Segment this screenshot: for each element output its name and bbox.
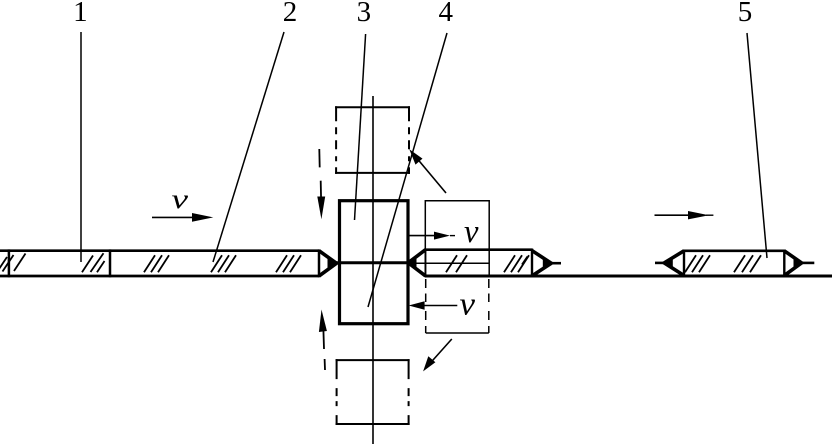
right far bar: right base [783, 250, 785, 277]
svg-text:2: 2 [283, 0, 298, 28]
hatch group 5 [276, 255, 301, 272]
left bar top edge [0, 249, 319, 252]
left bar pointed tip [319, 251, 337, 276]
svg-text:5: 5 [738, 0, 753, 28]
upper dashed box (raised saw position) [335, 106, 410, 174]
right far bar hatch group 1 [685, 255, 710, 272]
leader line 1 [80, 32, 82, 262]
svg-text:1: 1 [73, 0, 88, 28]
bar after saw: left pointed tip [408, 250, 425, 276]
arrow to lower box corner [423, 339, 452, 371]
svg-text:v: v [460, 287, 476, 323]
dashed up arrow (saw rising) [319, 310, 327, 371]
clamp box lower dashed part [426, 279, 489, 333]
hatch group 3 [144, 255, 169, 272]
v arrow left (feed direction) [152, 213, 213, 222]
bar after saw: top edge [425, 248, 532, 251]
saw box (item 3) [340, 201, 409, 324]
bar after saw: right stub [551, 262, 561, 265]
rail line through saw box [335, 261, 410, 264]
bar after saw: right base [531, 249, 533, 277]
right far bar: left stub [655, 262, 664, 265]
label 1 [73, 0, 88, 28]
right far bar: right pointed tip [784, 251, 801, 276]
right far bar hatch group 2 [734, 255, 761, 272]
v arrow lower (into saw box) [409, 301, 458, 309]
hatch group 1 [0, 254, 26, 274]
leader line 3 [355, 34, 366, 220]
label 3 [357, 0, 372, 28]
hatch group 2 [82, 253, 105, 272]
v arrow upper (clamp feed) [409, 232, 455, 240]
svg-text:v: v [464, 214, 479, 250]
leader line 5 [747, 33, 767, 258]
lower dashed box (lowered saw position) [336, 359, 410, 425]
right far bar: right stub [802, 262, 815, 265]
right far bar: top edge [684, 250, 784, 253]
bar after saw: right pointed tip [532, 251, 551, 276]
arrow to upper box corner [409, 149, 446, 193]
bar after saw hatch group B [504, 255, 529, 272]
main rail line right section [425, 275, 832, 278]
label 2 [283, 0, 298, 28]
hatch group 4 [211, 255, 236, 272]
label 4 [439, 0, 454, 28]
svg-text:4: 4 [439, 0, 454, 28]
right far bar: left pointed tip [664, 251, 684, 276]
dashed down arrow (saw descending) [317, 149, 325, 219]
left bar right base [318, 249, 321, 277]
leader line 4 [368, 33, 447, 307]
left bar left cap [8, 249, 11, 277]
arrow above right bar (motion direction) [655, 211, 714, 219]
leader line 2 [213, 32, 284, 262]
bar after saw hatch group A [446, 255, 467, 272]
svg-text:3: 3 [357, 0, 372, 28]
vertical centerline of saw [372, 96, 374, 444]
clamp box (item 4 zone) upper part [425, 200, 489, 277]
bar after saw: left base [425, 249, 427, 277]
right far bar: left base [683, 250, 685, 277]
left bar bottom edge [0, 275, 319, 278]
left bar divider [109, 249, 112, 277]
svg-text:v: v [172, 184, 189, 214]
label 5 [738, 0, 753, 28]
bar mid line to clamp edge [409, 262, 489, 264]
